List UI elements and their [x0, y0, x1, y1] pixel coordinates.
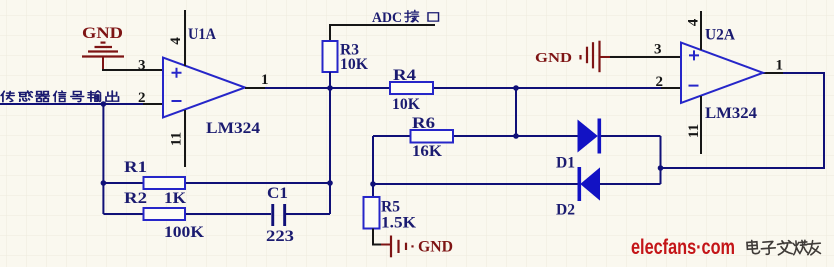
svg-text:4: 4: [168, 37, 184, 45]
resistor R5: [364, 197, 417, 232]
capacitor C1: [266, 185, 294, 245]
logo elecfans: [631, 236, 735, 259]
svg-text:3: 3: [654, 42, 662, 58]
junction R6 right / node B column: [513, 133, 519, 139]
svg-text:D2: D2: [556, 202, 575, 219]
junction R1 right: [327, 180, 333, 186]
svg-text:1: 1: [261, 72, 269, 88]
pin 11 U2A: [686, 96, 702, 154]
junction at pin2: [101, 101, 107, 107]
pin 4 U2A: [686, 11, 702, 50]
svg-text:R6: R6: [412, 115, 435, 132]
wire: D1 row: [516, 135, 661, 137]
svg-text:223: 223: [266, 228, 294, 245]
wire: C1 right to vertical rail: [286, 213, 330, 215]
ground GND3 (bottom): [381, 236, 453, 258]
wire: GND2 to U2A pin 3: [610, 56, 681, 58]
svg-text:11: 11: [169, 132, 185, 146]
node ADC label: [372, 10, 402, 26]
svg-text:LM324: LM324: [206, 120, 260, 137]
wire: R2 row left: [103, 213, 271, 215]
wire: node B down to R6 row: [515, 88, 517, 136]
resistor R3: [323, 41, 369, 73]
resistor R2: [124, 190, 205, 241]
node A junction: [327, 85, 333, 91]
svg-text:100K: 100K: [164, 224, 205, 241]
wire: R3 bottom to node A: [329, 72, 331, 88]
wire: U1A output to node A: [245, 87, 330, 89]
resistor R4: [390, 67, 433, 113]
junction R5 top: [370, 181, 376, 187]
svg-text:3: 3: [138, 58, 146, 74]
resistor R6: [411, 115, 454, 160]
junction feedback: [658, 165, 664, 171]
svg-text:D1: D1: [556, 155, 575, 172]
wire: node A down to C1 row: [329, 88, 331, 214]
svg-text:10K: 10K: [340, 56, 369, 73]
svg-text:11: 11: [686, 124, 702, 138]
wire: sensor input to U1A pin 2: [0, 103, 163, 105]
svg-text:U2A: U2A: [705, 26, 735, 43]
svg-text:GND: GND: [418, 239, 453, 256]
svg-text:16K: 16K: [412, 143, 443, 160]
svg-text:1: 1: [776, 58, 784, 74]
node B junction: [513, 85, 519, 91]
pin 4 U1A: [168, 10, 185, 66]
ground GND2 (mid, left of U2A pin3): [535, 41, 610, 72]
wire: node A to R4 to node B to U2A pin 2: [330, 87, 681, 89]
diode D1: [556, 119, 601, 172]
svg-text:R1: R1: [124, 159, 147, 176]
svg-text:4: 4: [686, 18, 702, 26]
wire: ADC stub: [330, 25, 435, 41]
pin 11 U1A: [169, 110, 186, 167]
svg-text:U1A: U1A: [188, 26, 216, 43]
node label 传感器信号输出 (sensor signal output): [1, 91, 118, 102]
ground GND1 (earth symbol, top-left): [82, 25, 124, 70]
logo text 电子发烧友: [747, 240, 821, 255]
svg-text:C1: C1: [267, 185, 288, 202]
svg-text:1K: 1K: [164, 190, 187, 207]
node ADC label CJK 接口: [405, 10, 439, 22]
svg-text:GND: GND: [535, 51, 572, 66]
wire: R6 left down to D2 row: [372, 136, 374, 197]
wire: feedback from U2A output: [661, 73, 825, 168]
svg-text:1.5K: 1.5K: [381, 215, 417, 232]
wire: R1 row: [103, 182, 330, 184]
op-amp U2A: [681, 26, 763, 122]
wire: diode right rail: [660, 136, 662, 184]
svg-text:2: 2: [656, 74, 664, 90]
svg-text:GND: GND: [82, 25, 123, 42]
wire: R5 bottom to GND3: [373, 229, 381, 245]
diode D2: [556, 167, 600, 219]
wire: GND1 to U1A pin 3: [102, 69, 163, 71]
svg-text:2: 2: [138, 90, 146, 106]
svg-text:R5: R5: [381, 199, 400, 216]
resistor R1: [124, 159, 187, 207]
op-amp U1A: [163, 26, 260, 137]
svg-text:R4: R4: [393, 67, 416, 84]
svg-text:LM324: LM324: [705, 105, 757, 122]
svg-text:ADC: ADC: [372, 10, 402, 26]
svg-text:R2: R2: [124, 190, 147, 207]
wire: R6 row: [373, 135, 516, 137]
wire: D2 row: [373, 183, 661, 185]
svg-text:elecfans·com: elecfans·com: [631, 236, 735, 259]
wire: U1A pin2 node down left rail: [102, 104, 104, 214]
svg-text:10K: 10K: [392, 96, 421, 113]
junction R1 left: [101, 180, 107, 186]
